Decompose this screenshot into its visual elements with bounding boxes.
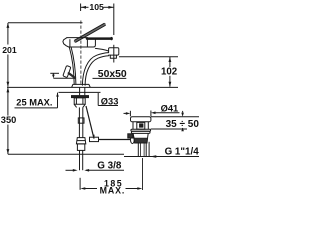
svg-text:50x50: 50x50: [98, 69, 127, 80]
svg-text:Ø33: Ø33: [101, 96, 119, 106]
svg-text:25 MAX.: 25 MAX.: [16, 97, 52, 107]
svg-text:201: 201: [2, 45, 17, 55]
svg-text:G 1"1/4: G 1"1/4: [165, 147, 200, 158]
svg-text:G 3/8: G 3/8: [97, 160, 122, 171]
svg-text:350: 350: [1, 115, 17, 125]
svg-text:35 ÷ 50: 35 ÷ 50: [166, 119, 200, 130]
svg-text:105: 105: [89, 2, 104, 12]
svg-text:MAX.: MAX.: [100, 185, 126, 195]
svg-text:Ø41: Ø41: [161, 103, 179, 113]
svg-text:102: 102: [161, 67, 177, 78]
